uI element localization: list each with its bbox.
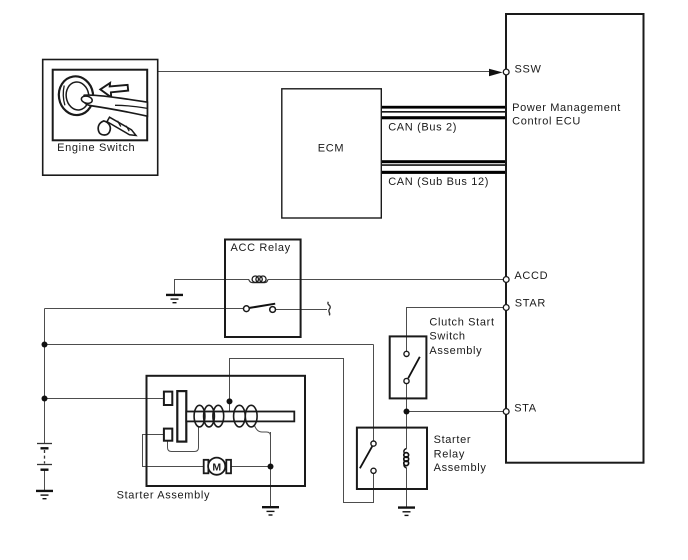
svg-text:CAN (Sub Bus 12): CAN (Sub Bus 12) [388, 176, 489, 188]
svg-text:ACCD: ACCD [514, 270, 548, 282]
svg-text:M: M [212, 461, 221, 473]
svg-text:Assembly: Assembly [434, 462, 487, 474]
svg-text:Control ECU: Control ECU [512, 116, 581, 128]
svg-text:Engine Switch: Engine Switch [57, 142, 135, 154]
svg-text:CAN (Bus 2): CAN (Bus 2) [388, 121, 457, 133]
svg-text:Clutch Start: Clutch Start [429, 317, 494, 329]
svg-text:SSW: SSW [515, 63, 542, 75]
svg-text:ACC Relay: ACC Relay [231, 242, 291, 254]
svg-text:Starter Assembly: Starter Assembly [117, 490, 211, 502]
svg-text:STAR: STAR [515, 298, 546, 310]
svg-text:STA: STA [514, 403, 537, 415]
svg-text:Power Management: Power Management [512, 102, 621, 114]
svg-text:Switch: Switch [429, 331, 465, 343]
svg-text:Relay: Relay [434, 448, 465, 460]
svg-text:ECM: ECM [318, 142, 344, 154]
svg-text:Assembly: Assembly [429, 345, 482, 357]
svg-text:Starter: Starter [434, 434, 472, 446]
